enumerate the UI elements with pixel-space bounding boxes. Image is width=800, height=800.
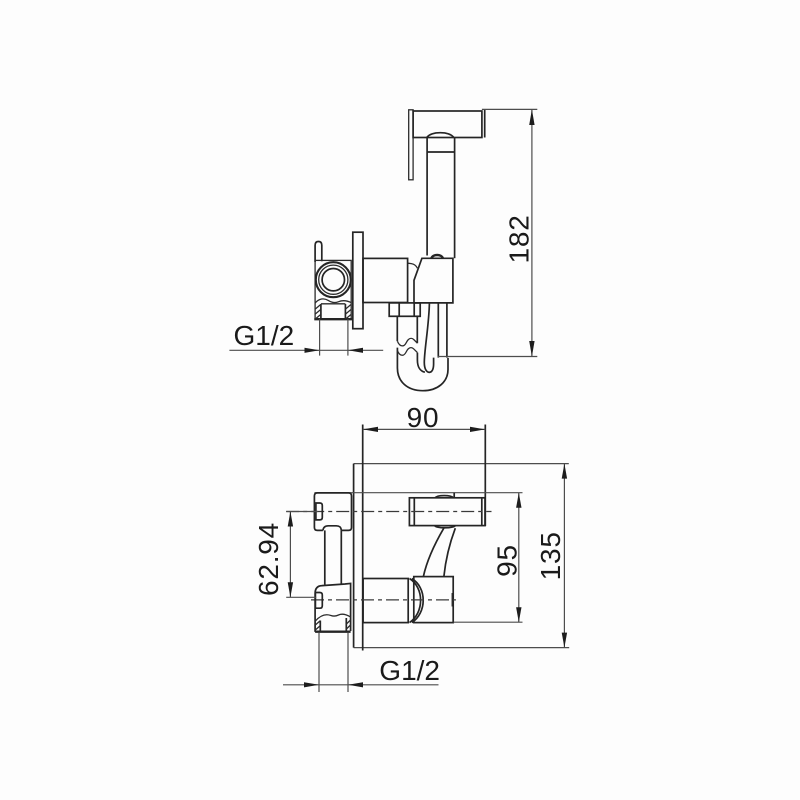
inlet pipe left line (G1/2 extension) [319,319,321,355]
mounting plate bottom edge [354,647,570,649]
hose curve right (bottom view) [444,528,455,576]
left hatch strokes [315,305,320,320]
dimension 182 extension line top [482,108,537,110]
dimension 95 extension bottom [453,621,522,623]
dimension 90 line [363,428,486,430]
connection block [414,577,453,623]
handle dome cap [427,133,454,138]
dimension G1/2 bottom arrow right [348,682,363,687]
hose hook inner J line [424,303,433,372]
upper inlet notch [316,503,322,520]
nut facet left [398,303,400,316]
flange bottom edge [314,318,352,320]
nut facet right [413,303,415,316]
flange break wavy line [315,299,351,303]
sprayer holder rectangle [409,498,485,526]
inlet pipe right line (G1/2 extension) [347,319,349,355]
knob flange housing [315,260,351,319]
holder centerline [286,511,491,513]
lower valve dome inner arc [410,579,421,623]
handle right side [454,138,456,259]
hose upper right line [416,316,418,343]
lower inlet bracket outline [315,583,351,632]
dimension 90 arrow right [470,427,485,432]
dimension G1/2 top arrow left [305,348,320,353]
wall plate (escutcheon) [353,232,363,329]
hose break squiggle 1 [397,338,417,345]
mounting plate top edge [354,463,569,465]
control lever pin [315,242,322,263]
lower bracket right hatch wall [345,618,347,631]
hose hook outer U [397,348,448,391]
spray head body [413,111,482,138]
svg-text:135: 135 [535,531,566,580]
svg-text:62.94: 62.94 [253,522,284,596]
outlet pipe left (G1/2 extension) [318,633,320,692]
handle left side [426,138,428,256]
hose break squiggle 2 [397,348,417,356]
hose upper left line [396,316,398,341]
valve body [363,258,408,302]
dimension 135 arrow top [562,464,567,479]
holder bracket [414,258,453,303]
support arm top line [314,492,522,494]
inter-bracket pipe left [324,530,326,584]
svg-text:G1/2: G1/2 [234,320,295,351]
lower valve centerline [311,599,456,601]
lower bracket hatch strokes left [315,621,320,630]
dimension 62.94 extension bottom [286,596,316,598]
dimension G1/2 top arrow right [348,348,363,353]
dimension 62.94 line [289,512,291,598]
holder inner right line [481,498,483,526]
holder top clip tick [453,493,455,498]
outlet pipe right (G1/2 extension) [347,633,349,692]
neck fillet between body and holder [408,263,418,268]
hose hook inner left arc [417,353,425,373]
svg-text:90: 90 [407,402,440,433]
lower bracket hatch strokes right [346,620,350,629]
spray face plate [409,110,413,180]
dimension 135 line [563,464,565,648]
dimension 95 arrow bottom [516,607,521,622]
upper bracket cutout arc [323,526,341,531]
plate right vertical (90 extension) [484,425,486,527]
right hatch strokes [346,305,351,320]
flange seat right wall [344,304,346,319]
holder inner left line [413,498,415,526]
svg-text:182: 182 [504,214,535,263]
knob outer circle [316,262,351,297]
knob ring circle [319,265,348,294]
lower valve dome outer arc [412,579,423,623]
lower inlet notch [315,593,322,609]
dimension 182 arrow bottom [529,341,534,357]
flange seat line [321,303,346,305]
handle joint line [427,151,455,153]
holder bottom clip bump [434,526,455,528]
hose nut [389,303,420,316]
dimension 62.94 arrow bottom [288,582,293,597]
inter-bracket pipe right [340,530,342,583]
lower valve body rectangle [363,579,408,623]
lower valve centerline tick [451,593,453,607]
svg-text:95: 95 [491,544,522,577]
dimension G1/2 top line [229,349,383,351]
svg-text:G1/2: G1/2 [379,655,440,686]
dimension G1/2 bottom line [283,684,439,686]
dimension 135 arrow bottom [562,633,567,648]
hose down line outer [446,303,448,358]
flange seat left wall [320,304,322,319]
spray head right end double line [484,110,486,138]
dimension 62.94 extension top [286,511,318,513]
knob inner circle [322,269,344,291]
dimension 182 line [531,109,533,356]
holder clip bump [431,255,443,258]
dimension 90 arrow left [363,427,378,432]
dimension G1/2 bottom arrow left [304,682,319,687]
holder top clip bump [435,496,454,498]
upper inlet bracket [314,493,351,531]
dimension 95 line [518,493,520,623]
dimension 62.94 arrow top [288,512,293,527]
mounting plate left edge [353,464,355,648]
lower bracket left hatch wall [319,621,321,632]
hose curve left (bottom view) [423,528,443,576]
hose down line inner [437,303,439,358]
dimension 182 extension line bottom [438,356,538,358]
dimension 182 arrow top [529,109,534,125]
mounting plate inner vertical [362,425,364,651]
lower bracket bottom flange line [315,631,351,633]
dimension 95 arrow top [516,493,521,508]
lower bracket wavy break [315,614,350,621]
